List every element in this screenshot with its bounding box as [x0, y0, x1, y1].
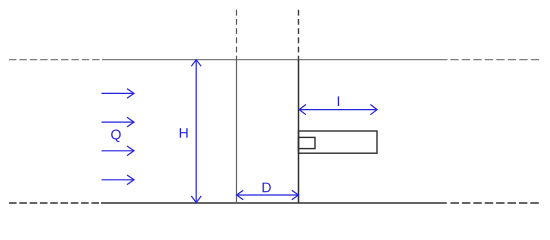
flow arrow 4 — [102, 175, 135, 185]
right gate line solid part — [298, 60, 300, 203]
left gate line dashed upper part — [236, 10, 238, 60]
top wall solid segment — [102, 59, 448, 61]
top wall dashed right segment — [450, 59, 540, 61]
label D — [263, 183, 271, 193]
I dimension double arrow — [299, 105, 377, 115]
left gate line solid part — [236, 60, 238, 203]
outer tube rectangle — [299, 131, 378, 153]
bottom wall dashed right segment — [451, 202, 540, 204]
right gate line dashed upper part — [298, 10, 300, 60]
flow arrow 3 — [102, 146, 135, 156]
label I — [338, 96, 339, 106]
H dimension double arrow — [191, 60, 201, 203]
D dimension double arrow — [237, 190, 299, 199]
inner orifice rectangle — [299, 137, 316, 148]
bottom wall dashed left segment — [9, 202, 99, 204]
label Q — [111, 130, 121, 142]
flow arrow 2 — [102, 117, 135, 127]
label H — [180, 128, 188, 138]
flow arrow 1 — [102, 89, 135, 99]
bottom wall solid segment — [101, 202, 447, 204]
top wall dashed left segment — [9, 59, 100, 61]
